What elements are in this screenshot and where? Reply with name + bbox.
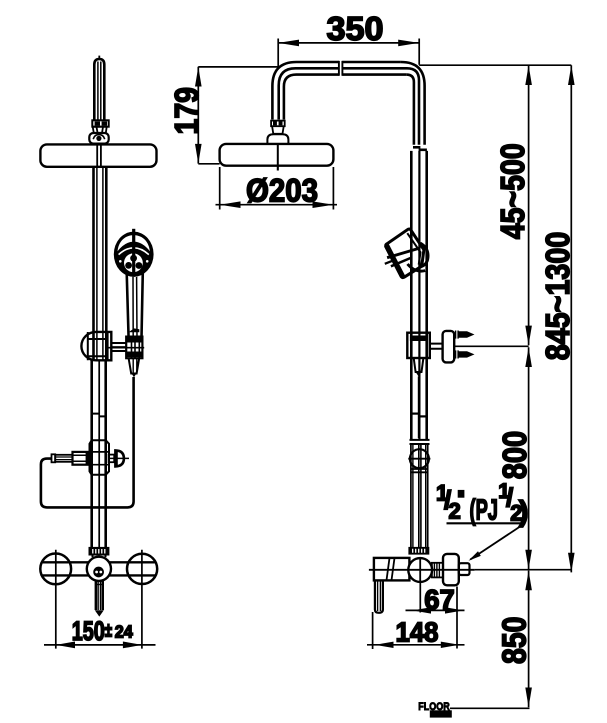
dim 179 xyxy=(197,67,199,164)
slider bracket side xyxy=(407,333,430,358)
svg-text:800: 800 xyxy=(496,431,533,480)
lower riser: mid section (3 lines) xyxy=(411,151,426,440)
dim 845~1300 (line B) xyxy=(570,65,572,572)
hand shower head front xyxy=(114,229,154,277)
svg-text:2: 2 xyxy=(449,498,461,523)
arm union caps xyxy=(339,61,343,76)
lever xyxy=(375,580,383,612)
label 1/2"(PJ1/2) xyxy=(436,480,528,561)
dim 67 xyxy=(420,583,457,649)
lower riser: bottom section (3 pairs) xyxy=(411,444,428,548)
ball joint housing xyxy=(89,133,108,144)
diverter plunger xyxy=(73,452,90,465)
top pipe xyxy=(94,59,104,120)
svg-text:24: 24 xyxy=(115,622,133,642)
pipe union xyxy=(91,414,107,417)
diverter tee body xyxy=(92,440,106,475)
mixer extension line xyxy=(475,569,572,571)
dim 148 xyxy=(372,612,374,649)
threads xyxy=(432,563,443,578)
left flange xyxy=(40,554,71,585)
mixer side: nut xyxy=(409,548,428,554)
svg-text:45~500: 45~500 xyxy=(494,143,531,239)
FRONT VIEW xyxy=(40,56,157,649)
hose loop xyxy=(41,377,134,507)
head side view xyxy=(220,144,334,166)
flange center lines / ext lines xyxy=(56,550,142,649)
bracket extension line xyxy=(454,345,528,347)
svg-text:850: 850 xyxy=(495,617,532,665)
hand shower handle xyxy=(127,272,143,339)
svg-text:179: 179 xyxy=(168,87,205,135)
shower head front xyxy=(40,144,156,166)
spout rod xyxy=(96,581,103,610)
mixer bars xyxy=(42,562,156,575)
dim 800 (line A mid) xyxy=(528,347,530,569)
slider arm xyxy=(111,343,126,351)
holder taper xyxy=(129,358,140,373)
clip above holder xyxy=(129,328,140,332)
dim 850 (line A lower) xyxy=(528,571,530,708)
anchor screws xyxy=(456,331,459,339)
svg-text:350: 350 xyxy=(327,10,384,47)
top arm: left bend down to head connector xyxy=(272,62,401,120)
top pipe nib xyxy=(98,56,100,59)
top extension line xyxy=(419,64,571,66)
diverter right knob xyxy=(109,455,115,463)
svg-text:(PJ: (PJ xyxy=(470,494,499,526)
svg-text:67: 67 xyxy=(424,584,455,615)
right flange xyxy=(127,554,157,584)
mixer centerline xyxy=(369,569,475,571)
riser union joint (offset caps) xyxy=(411,413,419,415)
floor line xyxy=(450,707,530,709)
svg-text:150: 150 xyxy=(72,616,105,646)
dim 45~500 (line A upper) xyxy=(528,65,530,345)
riser nut above union xyxy=(410,440,430,444)
cartridge xyxy=(408,558,432,582)
pipe nut ring xyxy=(92,120,108,126)
mixer center body xyxy=(87,557,111,581)
right bend into riser xyxy=(401,62,425,145)
svg-text:845~1300: 845~1300 xyxy=(539,232,576,361)
arm connector to head (side) xyxy=(271,121,285,127)
taper cone xyxy=(92,127,107,133)
wall flange xyxy=(443,554,459,585)
hand shower side (tilted) xyxy=(385,229,428,278)
mixer body xyxy=(374,558,410,581)
svg-text:148: 148 xyxy=(396,616,439,647)
dim 350 xyxy=(278,42,420,44)
SIDE VIEW xyxy=(220,61,475,613)
riser joint xyxy=(413,146,420,149)
dim 150+-24 xyxy=(44,644,156,646)
union circle on riser xyxy=(410,449,429,468)
floor symbol xyxy=(418,701,452,718)
dim D203 xyxy=(216,204,338,206)
pipe to mixer continues (drawn as main lines) xyxy=(92,360,106,548)
svg-text:Ø203: Ø203 xyxy=(246,172,318,208)
main pipe below head xyxy=(94,167,107,360)
outlet xyxy=(459,563,470,575)
slider body on pipe xyxy=(81,332,111,360)
handle holder xyxy=(126,337,142,359)
mixer top nut xyxy=(90,548,109,555)
svg-text:±: ± xyxy=(105,620,112,641)
bracket arm and wall plate xyxy=(430,344,443,349)
